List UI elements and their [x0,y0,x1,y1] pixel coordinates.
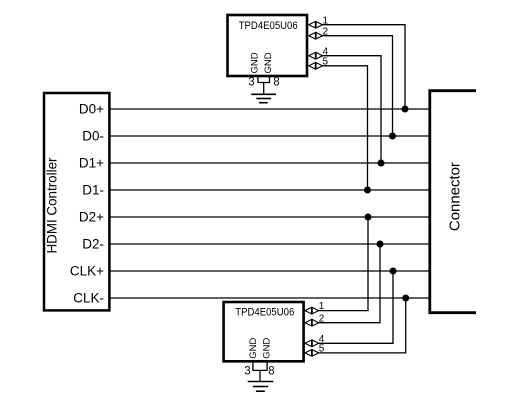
junction U1 pin4 / D1+ [378,160,385,167]
pin label CLK+ [70,264,104,279]
pin label D2+ [79,210,104,225]
wire D1+ [110,162,430,164]
svg-text:3: 3 [248,77,254,89]
U1 pin 1 symbol [309,21,323,28]
junction U1 pin5 / D1- [364,187,371,194]
junction U2 pin2 / D2- [377,241,384,248]
U2 pin 1 symbol [305,307,319,314]
wire D0- [110,135,430,137]
U1 GND pin name (pin3) [249,52,260,73]
pin label D1+ [79,156,104,171]
U1 pin 4 number [323,46,329,57]
ESD device U2 TPD4E05U06 (bottom) [224,302,304,361]
svg-text:TPD4E05U06: TPD4E05U06 [239,20,298,32]
svg-text:8: 8 [273,77,279,89]
U2 pin 4 symbol [305,340,319,347]
wire D2+ [110,216,430,218]
svg-text:D2+: D2+ [79,210,104,225]
svg-text:D2-: D2- [82,237,104,252]
wire U2 pin5 to CLK- [319,298,406,353]
ground (top) [251,94,276,102]
svg-text:CLK-: CLK- [73,291,104,306]
svg-text:GND: GND [263,52,274,73]
wire U2 pin1 to D2+ [319,217,368,311]
junction U2 pin5 / CLK- [402,295,409,302]
HDMI Controller label [44,157,59,253]
U1 pins 3/8 stubs to ground [258,76,270,94]
svg-text:D1-: D1- [82,183,104,198]
svg-text:3: 3 [244,366,250,378]
wire U2 pin4 to CLK+ [319,271,393,343]
pin label D2- [82,237,104,252]
pin label D1- [82,183,104,198]
svg-text:8: 8 [268,366,274,378]
wire U1 pin4 to D1+ [322,56,381,163]
U2 value label TPD4E05U06 [235,307,294,319]
svg-text:TPD4E05U06: TPD4E05U06 [235,307,294,319]
U2 pins 3/8 stubs to ground [253,362,267,382]
junction U1 pin1 / D0+ [402,106,409,113]
svg-text:GND: GND [249,52,260,73]
pin label D0+ [79,102,104,117]
U2 pin 5 symbol [305,350,319,357]
svg-text:Connector: Connector [446,162,463,231]
U1 pin 2 number [323,26,329,37]
connector box [430,91,476,313]
ESD device U1 TPD4E05U06 (top) [228,15,308,76]
wire U1 pin2 to D0- [322,36,392,136]
wire D1- [110,189,430,191]
HDMI controller box [44,93,109,310]
junction U1 pin2 / D0- [389,133,396,140]
Connector label [446,162,463,231]
U2 pin 2 number [319,313,325,324]
wire D2- [110,243,430,245]
U2 GND pin name (pin8) [261,338,272,359]
svg-text:CLK+: CLK+ [70,264,104,279]
U2 pin 5 number [319,344,325,355]
svg-text:D1+: D1+ [79,156,104,171]
wire CLK+ [110,270,430,272]
U2 pin 4 number [319,334,325,345]
junction U2 pin4 / CLK+ [390,268,397,275]
wire CLK- [110,297,430,299]
U1 pin 4 symbol [309,52,323,59]
wire U2 pin2 to D2- [319,244,380,323]
svg-text:GND: GND [248,338,259,359]
wire U1 pin5 to D1- [322,66,367,190]
svg-text:HDMI Controller: HDMI Controller [44,157,59,253]
U1 pin 8 number [273,77,279,89]
pin label D0- [82,129,104,144]
U1 pin 3 number [248,77,254,89]
pin label CLK- [73,291,104,306]
ground (bottom) [248,382,274,392]
U2 pin 8 number [268,366,274,378]
U2 pin 3 number [244,366,250,378]
U1 pin 5 symbol [309,62,323,69]
wire U1 pin1 to D0+ [322,25,405,109]
U1 GND pin name (pin8) [263,52,274,73]
U1 value label TPD4E05U06 [239,20,298,32]
svg-text:D0-: D0- [82,129,104,144]
U1 pin 5 number [323,57,329,68]
wire D0+ [110,108,430,110]
U2 pin 2 symbol [305,319,319,326]
junction U2 pin1 / D2+ [365,214,372,221]
U2 GND pin name (pin3) [248,338,259,359]
U1 pin 1 number [323,15,329,26]
U1 pin 2 symbol [309,32,323,39]
svg-text:GND: GND [261,338,272,359]
svg-text:D0+: D0+ [79,102,104,117]
U2 pin 1 number [319,301,325,312]
